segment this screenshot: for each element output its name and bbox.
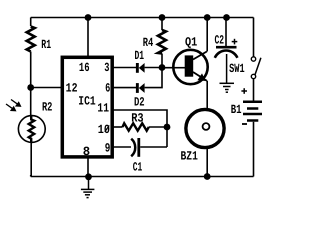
arrow light 1 bbox=[11, 100, 22, 107]
photoresistor R2 bbox=[18, 101, 52, 143]
wire bottom rail bbox=[31, 176, 254, 178]
wire D2 up to node bbox=[145, 68, 162, 88]
svg-text:Q1: Q1 bbox=[185, 36, 197, 50]
svg-text:D1: D1 bbox=[135, 49, 145, 63]
junction dot pin16 rail bbox=[85, 14, 92, 21]
junction dot Q1 rail bbox=[204, 14, 211, 21]
diode D1 bbox=[135, 49, 145, 73]
svg-text:8: 8 bbox=[83, 145, 90, 159]
svg-text:SW1: SW1 bbox=[229, 62, 245, 76]
node junction dot D1/R4/base bbox=[159, 64, 166, 71]
svg-text:R4: R4 bbox=[143, 36, 154, 50]
wire rail to SW1 bbox=[253, 18, 255, 57]
transistor Q1 bbox=[173, 36, 208, 85]
svg-text:11: 11 bbox=[97, 102, 109, 116]
resistor R4 bbox=[143, 18, 166, 68]
switch SW1 bbox=[229, 57, 261, 79]
capacitor C2 bbox=[215, 18, 238, 58]
IC IC1 box bbox=[62, 57, 112, 157]
battery B1 bbox=[231, 102, 262, 121]
minus sign B1 bbox=[242, 123, 247, 125]
wire SW1 to battery bbox=[253, 79, 255, 101]
svg-text:IC1: IC1 bbox=[78, 94, 95, 108]
wire top rail bbox=[31, 17, 254, 19]
diode D2 bbox=[134, 83, 145, 110]
svg-text:R3: R3 bbox=[131, 111, 143, 125]
wire pin 16 to top rail bbox=[87, 18, 89, 58]
svg-text:R2: R2 bbox=[42, 101, 53, 115]
wire R3 to junction bbox=[149, 126, 167, 128]
wire BZ1 to bottom rail bbox=[206, 148, 208, 176]
wire D1 to node bbox=[145, 67, 162, 69]
wire battery to bottom rail bbox=[253, 122, 255, 177]
wire C1 to junction vertical bbox=[140, 146, 167, 148]
ground under IC bbox=[81, 177, 95, 198]
ground under C2 bbox=[220, 54, 235, 92]
wire node to Q1 base bbox=[162, 67, 185, 69]
plus sign B1 bbox=[241, 88, 247, 94]
svg-text:3: 3 bbox=[104, 61, 109, 75]
junction dot R3/C net bbox=[164, 124, 171, 131]
wire node to R2 bbox=[30, 88, 32, 117]
svg-text:10: 10 bbox=[98, 123, 110, 137]
svg-text:C2: C2 bbox=[215, 34, 225, 48]
capacitor C1 bbox=[131, 138, 142, 174]
buzzer BZ1 bbox=[181, 109, 225, 163]
junction dot C2 rail bbox=[223, 14, 230, 21]
wire R1 bottom to node bbox=[30, 52, 32, 88]
resistor R3 bbox=[123, 111, 149, 130]
wire left column top (rail to R1) bbox=[30, 18, 32, 27]
svg-text:16: 16 bbox=[79, 61, 90, 75]
wire pin 8 to bottom rail bbox=[87, 157, 89, 177]
wire pin 10 to R3 bbox=[112, 126, 123, 128]
wire node to pin 12 bbox=[31, 87, 62, 89]
wire pin 3 to D1 bbox=[112, 67, 136, 69]
junction dot R4 top rail bbox=[159, 14, 166, 21]
svg-text:9: 9 bbox=[105, 142, 111, 156]
wire R2 bottom to bottom rail bbox=[30, 142, 32, 176]
svg-text:D2: D2 bbox=[134, 96, 145, 110]
wire Q1 collector to top rail bbox=[206, 18, 208, 52]
node junction dot left bbox=[27, 84, 34, 91]
wire pin 11 over to vertical bbox=[112, 110, 167, 147]
junction dot BZ1 rail bbox=[204, 173, 211, 180]
wire Q1 emitter to BZ1 bbox=[206, 81, 208, 109]
plus sign C2 bbox=[232, 39, 238, 45]
resistor R1 bbox=[27, 27, 35, 52]
svg-text:BZ1: BZ1 bbox=[181, 149, 198, 163]
wire pin 9 to C1 bbox=[112, 146, 131, 148]
svg-text:R1: R1 bbox=[41, 38, 51, 52]
svg-text:12: 12 bbox=[66, 81, 78, 95]
arrow light 2 bbox=[6, 104, 17, 111]
svg-text:C1: C1 bbox=[133, 160, 143, 174]
svg-text:6: 6 bbox=[105, 81, 110, 95]
wire pin 6 to D2 bbox=[112, 87, 136, 89]
junction dot ground rail bbox=[85, 173, 92, 180]
svg-text:B1: B1 bbox=[231, 103, 242, 117]
